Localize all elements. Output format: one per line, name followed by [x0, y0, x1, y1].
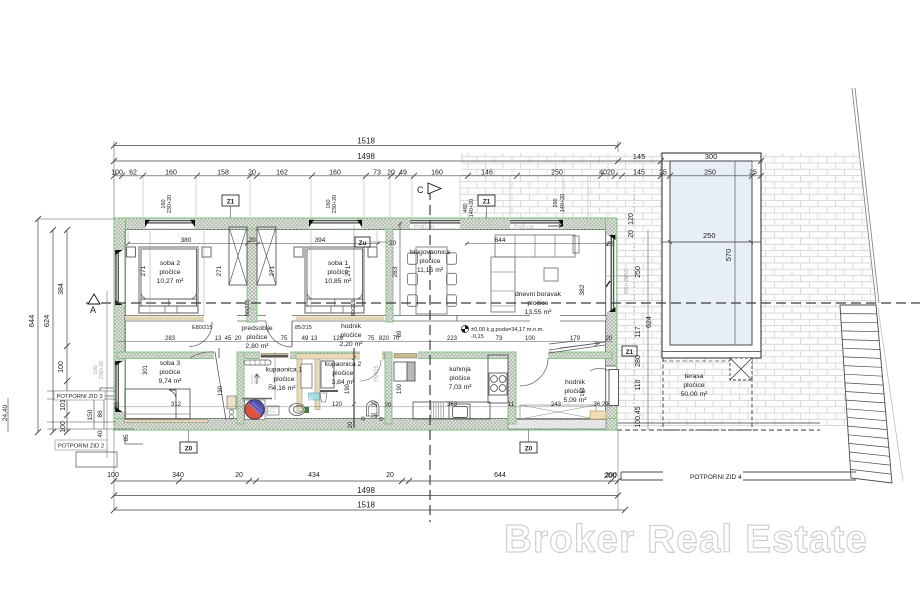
svg-text:150: 150 [87, 409, 94, 420]
Z0 box left [180, 430, 197, 453]
wardrobe X right [257, 227, 276, 285]
svg-text:250: 250 [704, 170, 716, 177]
window soba1 in top wall [309, 219, 362, 229]
svg-text:230+20: 230+20 [99, 361, 105, 380]
svg-text:120: 120 [628, 213, 635, 225]
kupaonica partition tan walls [297, 354, 302, 412]
plot boundary diagonal double line [852, 88, 879, 303]
pool mid dimension 250 [662, 241, 761, 243]
V1 V3 wall patches over H1 [247, 309, 257, 322]
top dimension line segments [111, 173, 764, 179]
svg-text:230+20: 230+20 [624, 276, 630, 295]
svg-text:1498: 1498 [357, 152, 375, 161]
left exterior wall [114, 218, 126, 430]
svg-text:kupaonica 2: kupaonica 2 [325, 361, 362, 368]
terrace dashed outline [617, 358, 820, 430]
svg-text:24,40: 24,40 [2, 404, 9, 421]
left lower small dims [8, 391, 134, 432]
entrance door gap in right wall [607, 366, 617, 404]
Z1 box top left [222, 195, 239, 218]
marker C with triangle [417, 183, 441, 195]
retaining wall POTPORNI ZID 4 [604, 471, 856, 481]
svg-text:434: 434 [308, 472, 320, 479]
svg-text:pločice: pločice [449, 375, 470, 382]
svg-text:20: 20 [385, 403, 392, 409]
room label soba2 [157, 260, 185, 285]
svg-text:820: 820 [379, 336, 390, 342]
svg-text:kupaonica 1: kupaonica 1 [266, 367, 303, 374]
svg-text:301: 301 [143, 364, 149, 375]
swimming pool [662, 153, 761, 361]
left dimension line 644 [35, 216, 114, 435]
svg-text:1498: 1498 [357, 486, 375, 495]
kupaonica2 fixtures [320, 348, 383, 428]
svg-text:280: 280 [635, 355, 642, 367]
svg-text:1518: 1518 [357, 501, 375, 510]
svg-text:100,45: 100,45 [635, 406, 642, 428]
svg-text:20: 20 [248, 237, 256, 244]
marker A with triangle [88, 294, 100, 315]
svg-text:117: 117 [635, 326, 642, 337]
svg-text:pločice: pločice [246, 334, 267, 341]
svg-text:POTPORNI ZID 2: POTPORNI ZID 2 [58, 444, 104, 450]
section line C vertical dashed [429, 190, 431, 522]
soba1 right dim line [353, 225, 355, 320]
svg-text:soba 3: soba 3 [160, 360, 181, 367]
room label hodnik upper [339, 323, 363, 348]
svg-text:25: 25 [659, 170, 667, 177]
rotated 271 dims [140, 265, 586, 295]
svg-text:pločice: pločice [159, 269, 180, 276]
POTPORNI ZID 2 label [55, 440, 107, 450]
svg-text:340: 340 [172, 472, 184, 479]
skimmer box with X [730, 358, 752, 380]
svg-text:140+20: 140+20 [560, 194, 566, 213]
interior wall V6 kuhinja left [385, 352, 392, 424]
toilet kupaonica1 [289, 397, 313, 416]
svg-text:20: 20 [235, 336, 242, 342]
svg-text:Broker Real Estate: Broker Real Estate [504, 518, 868, 561]
svg-text:146: 146 [481, 170, 493, 177]
svg-text:75: 75 [371, 403, 378, 409]
room label kupaonica2 [325, 361, 362, 386]
svg-text:160: 160 [165, 170, 177, 177]
dining table blagovaonica [408, 247, 457, 314]
svg-text:380: 380 [181, 237, 192, 244]
svg-text:100: 100 [60, 421, 67, 433]
svg-text:25: 25 [749, 170, 757, 177]
rotated window labels gray [161, 194, 566, 317]
svg-text:kuhinja: kuhinja [449, 366, 471, 373]
svg-text:20: 20 [606, 336, 613, 342]
svg-text:Z0: Z0 [525, 446, 533, 453]
window soba2 in left wall [115, 250, 125, 305]
right pool dimension column [634, 190, 648, 430]
svg-text:250: 250 [635, 266, 642, 278]
svg-text:11: 11 [508, 402, 515, 408]
interior wall V1 wardrobe center [247, 229, 257, 322]
svg-text:20: 20 [114, 402, 121, 410]
svg-text:Z1: Z1 [483, 199, 491, 206]
svg-text:20: 20 [606, 241, 614, 248]
room label predsoblje [241, 325, 273, 350]
svg-text:624: 624 [646, 316, 653, 328]
svg-text:7,03 m²: 7,03 m² [448, 384, 472, 391]
paved terrace brick area around pool [461, 153, 876, 427]
kupaonica1 fixtures [244, 352, 320, 400]
svg-text:353: 353 [447, 402, 458, 408]
interior wall V4 kupaonica1 left [237, 352, 244, 424]
svg-text:20: 20 [387, 170, 395, 177]
terasa label [681, 373, 709, 398]
svg-text:110: 110 [635, 379, 642, 390]
svg-text:85/215: 85/215 [295, 325, 312, 331]
svg-text:hodnik: hodnik [341, 323, 362, 330]
pool inner vertical line [734, 161, 736, 345]
svg-text:644: 644 [494, 472, 506, 479]
top dimension line 1518 [111, 141, 621, 218]
svg-text:pločice: pločice [340, 332, 361, 339]
hodnik entry steps [549, 341, 605, 353]
left dimension line 624 [50, 227, 56, 435]
kitchen door arc [520, 358, 548, 386]
svg-text:pločice: pločice [332, 370, 353, 377]
svg-text:75: 75 [281, 336, 288, 342]
svg-text:10,27 m²: 10,27 m² [157, 278, 185, 285]
svg-text:190: 190 [397, 383, 403, 394]
svg-text:4020: 4020 [599, 170, 615, 177]
svg-text:POTPORNI ZID 3: POTPORNI ZID 3 [57, 394, 103, 400]
svg-text:-0,15: -0,15 [471, 334, 484, 340]
svg-text:101: 101 [60, 399, 67, 411]
svg-text:100: 100 [525, 336, 536, 342]
room label soba1 [325, 260, 353, 285]
svg-text:20: 20 [628, 230, 635, 238]
svg-text:62: 62 [129, 170, 137, 177]
svg-text:624: 624 [42, 315, 51, 328]
bottom dimension line 1498 [111, 493, 621, 499]
interior dim row y407 line [117, 406, 612, 408]
svg-text:160: 160 [431, 170, 443, 177]
room label dnevni boravak [515, 291, 562, 316]
svg-text:179: 179 [570, 336, 581, 342]
svg-text:pločice: pločice [564, 388, 585, 395]
Zu box [355, 237, 397, 247]
pool water [670, 161, 752, 345]
svg-text:13,55 m²: 13,55 m² [525, 309, 553, 316]
svg-text:2,20 m²: 2,20 m² [339, 341, 363, 348]
top dimension line 1498 + 145 300 [111, 158, 764, 164]
Z0 box right [520, 430, 537, 453]
svg-text:45: 45 [225, 336, 232, 342]
hodnik wardrobe dashed [520, 405, 606, 419]
bathroom band wall H2 [117, 352, 612, 360]
svg-text:hodnik: hodnik [565, 379, 586, 386]
living room low wall H3 [457, 315, 606, 322]
svg-text:49: 49 [302, 336, 309, 342]
corridor wall H1 [125, 315, 457, 322]
interior wall V7 kuhinja-hodnik [508, 352, 516, 424]
interior dim row y407 [171, 402, 609, 408]
svg-text:4,16 m²: 4,16 m² [272, 385, 296, 392]
interior wall face dark lines [125, 230, 606, 419]
svg-text:A: A [90, 305, 96, 315]
sofa dnevni boravak [491, 235, 579, 312]
svg-text:65: 65 [123, 434, 130, 442]
dim extension guide lines [143, 153, 752, 217]
svg-text:soba 2: soba 2 [160, 260, 181, 267]
room label kuhinja [448, 366, 472, 391]
svg-text:223: 223 [447, 336, 458, 342]
bottom exterior wall [114, 419, 617, 431]
room label kupaonica1 [266, 367, 303, 393]
svg-text:49: 49 [399, 170, 407, 177]
svg-text:10,85 m²: 10,85 m² [325, 278, 353, 285]
svg-text:145: 145 [633, 152, 646, 161]
svg-text:pločice: pločice [159, 369, 180, 376]
bed soba3 [125, 389, 190, 419]
window soba3 in left wall [115, 361, 125, 412]
svg-text:271: 271 [269, 265, 276, 276]
bed soba1 [294, 247, 377, 313]
svg-text:20: 20 [386, 472, 394, 479]
svg-text:250: 250 [551, 170, 563, 177]
svg-text:3,84 m²: 3,84 m² [331, 379, 355, 386]
left dimension line segments [64, 227, 70, 435]
svg-text:271: 271 [216, 265, 223, 276]
entrance door leaf [590, 368, 619, 405]
svg-text:90/215: 90/215 [245, 300, 251, 317]
svg-text:2,80 m²: 2,80 m² [245, 343, 269, 350]
svg-text:POTPORNI ZID 4: POTPORNI ZID 4 [690, 474, 742, 481]
svg-text:384: 384 [58, 283, 65, 295]
svg-text:200: 200 [605, 472, 617, 479]
window blagovaonica in top wall [410, 219, 460, 231]
svg-text:70: 70 [393, 336, 400, 342]
building interior floor [120, 224, 612, 426]
Z1 box right of building [622, 346, 637, 356]
svg-text:158: 158 [217, 170, 229, 177]
svg-text:250: 250 [703, 231, 716, 240]
room label soba3 [158, 360, 182, 385]
soba3 door leaf [190, 352, 236, 420]
low hatched parapet under hodnik [508, 420, 606, 430]
Z1 box top middle [478, 195, 495, 218]
window dnevni boravak in top wall [510, 219, 563, 231]
door labels gray [192, 325, 312, 331]
svg-text:predsoblje: predsoblje [241, 325, 273, 332]
svg-text:C: C [417, 185, 424, 195]
svg-text:20: 20 [389, 240, 397, 247]
level annotation [461, 325, 544, 340]
svg-text:terasa: terasa [685, 373, 704, 380]
interior dim row y243 [126, 242, 610, 246]
svg-text:120: 120 [332, 402, 343, 408]
svg-text:100: 100 [58, 361, 65, 373]
svg-text:36,20: 36,20 [593, 402, 609, 408]
svg-text:dnevni boravak: dnevni boravak [515, 291, 562, 298]
tan sill soba3 [124, 420, 208, 423]
svg-text:243: 243 [551, 402, 562, 408]
bed soba2 [127, 247, 212, 313]
svg-text:86: 86 [97, 410, 104, 418]
svg-text:9,74 m²: 9,74 m² [158, 378, 182, 385]
kitchen counters [394, 355, 508, 419]
svg-text:312: 312 [171, 402, 182, 408]
svg-text:250: 250 [553, 198, 559, 207]
top exterior wall [114, 218, 617, 231]
svg-text:120: 120 [333, 336, 344, 342]
svg-text:5,09 m²: 5,09 m² [563, 397, 587, 404]
svg-text:271: 271 [345, 265, 352, 276]
svg-text:283: 283 [392, 266, 399, 277]
svg-text:190: 190 [218, 385, 224, 396]
svg-text:13: 13 [311, 336, 318, 342]
svg-text:230+20: 230+20 [332, 195, 338, 214]
predsoblje door arcs [189, 321, 433, 358]
wardrobe X left [229, 227, 247, 285]
interior room guide lines [128, 231, 377, 315]
window dnevni in right wall [606, 235, 636, 312]
retaining wall 3 line [106, 291, 108, 458]
svg-text:73: 73 [496, 336, 503, 342]
svg-text:40: 40 [97, 430, 104, 438]
interior wall V3 blagovaonica left [386, 229, 393, 322]
svg-text:pločice: pločice [273, 376, 294, 383]
svg-text:140+20: 140+20 [469, 199, 475, 218]
interior dim row y341 [117, 341, 612, 343]
right exterior wall [606, 218, 637, 430]
room label hodnik lower [563, 379, 587, 404]
svg-text:644: 644 [27, 315, 36, 328]
svg-text:382: 382 [579, 284, 586, 295]
svg-text:100: 100 [107, 472, 119, 479]
svg-text:20: 20 [248, 170, 256, 177]
room label blagovaonica [410, 249, 450, 274]
svg-text:20: 20 [235, 472, 243, 479]
washer symbol [242, 399, 279, 420]
svg-text:271: 271 [140, 265, 147, 276]
svg-text:Z1: Z1 [227, 199, 235, 206]
svg-text:75/215: 75/215 [374, 366, 380, 383]
svg-text:PTV: PTV [268, 409, 276, 414]
svg-text:Z0: Z0 [185, 446, 193, 453]
left step outline [76, 388, 143, 467]
svg-text:13: 13 [215, 336, 222, 342]
svg-text:75: 75 [371, 414, 378, 420]
outdoor staircase [840, 305, 892, 483]
svg-text:394: 394 [315, 237, 326, 244]
svg-text:20: 20 [348, 421, 354, 428]
svg-text:pločice: pločice [683, 382, 704, 389]
svg-text:Z1: Z1 [626, 349, 634, 356]
bottom dimension row numbers [111, 430, 621, 510]
svg-text:1518: 1518 [357, 137, 375, 146]
window soba2 in top wall [145, 219, 195, 229]
svg-text:50,00 m²: 50,00 m² [681, 391, 709, 398]
bottom dimension line 1518 [111, 507, 628, 513]
svg-text:145: 145 [633, 170, 645, 177]
svg-text:570: 570 [724, 249, 733, 262]
svg-text:283: 283 [165, 336, 176, 342]
section line A-A horizontal dashed [86, 302, 920, 304]
svg-text:100: 100 [111, 170, 123, 177]
svg-text:E80/215: E80/215 [192, 325, 213, 331]
svg-text:230+20: 230+20 [167, 195, 173, 214]
svg-text:75: 75 [368, 336, 375, 342]
svg-text:644: 644 [495, 237, 506, 244]
svg-text:162: 162 [276, 170, 288, 177]
svg-text:90/215: 90/215 [351, 300, 357, 317]
svg-text:160: 160 [329, 170, 341, 177]
svg-text:73: 73 [373, 170, 381, 177]
svg-text:300: 300 [705, 152, 718, 161]
svg-text:±0,00 k.g.poda=34,17 m.n.m.: ±0,00 k.g.poda=34,17 m.n.m. [471, 327, 544, 333]
POTPORNI ZID 3 label [54, 391, 105, 400]
